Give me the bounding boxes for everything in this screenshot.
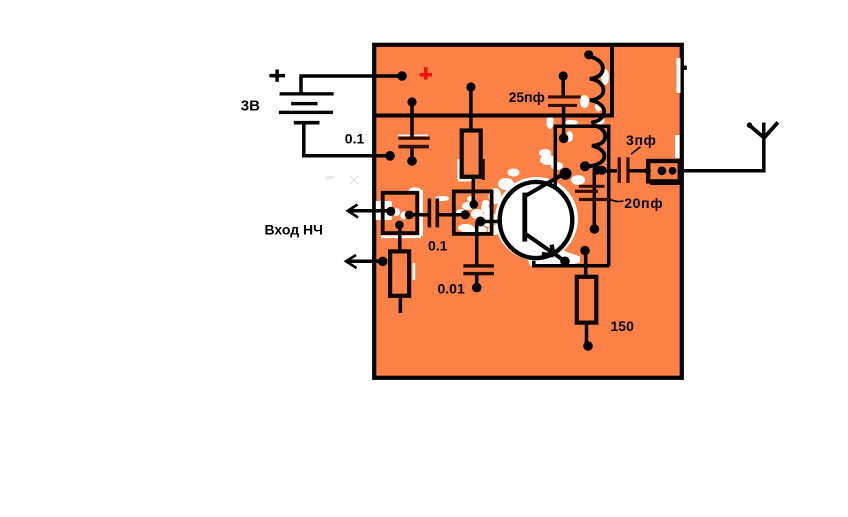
svg-text:Вход НЧ: Вход НЧ	[265, 222, 323, 238]
svg-text:0.01: 0.01	[438, 281, 465, 297]
svg-text:0.1: 0.1	[345, 131, 365, 147]
svg-text:25пф: 25пф	[509, 89, 545, 105]
svg-text:3В: 3В	[241, 98, 260, 115]
svg-text:150: 150	[611, 318, 635, 334]
svg-text:20пф: 20пф	[624, 195, 663, 211]
svg-text:0.1: 0.1	[428, 238, 448, 254]
svg-text:3пф: 3пф	[626, 132, 657, 148]
